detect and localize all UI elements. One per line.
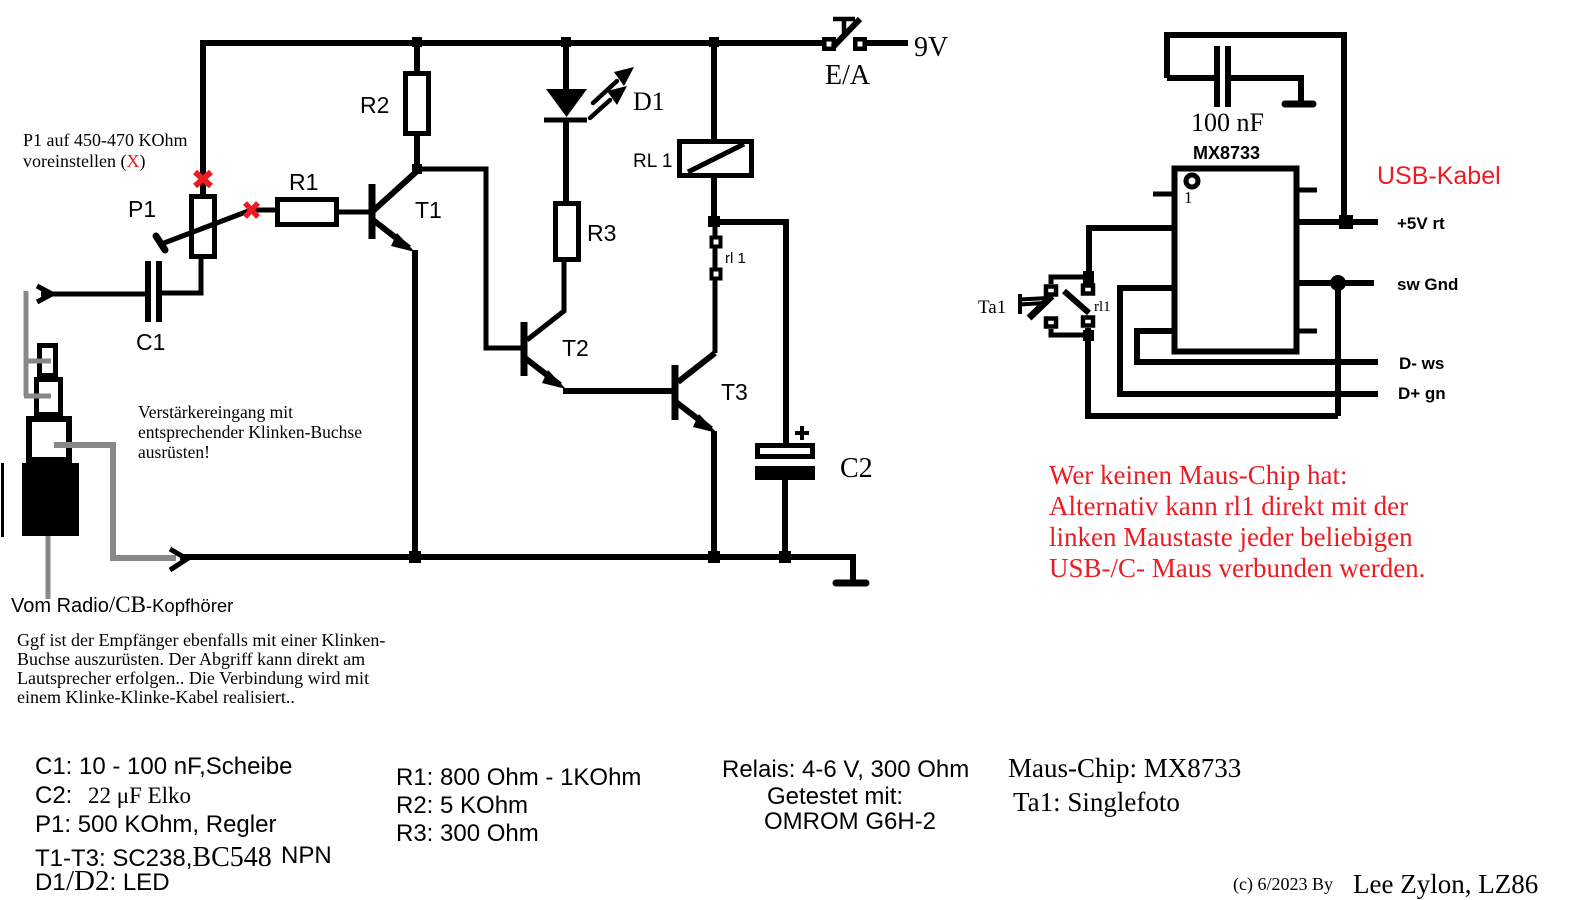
capacitor C2 top plate [758,446,813,457]
svg-text:rl1: rl1 [1094,299,1111,315]
wire Ta1 bottom link [1051,329,1089,335]
node junction T1 collector [412,164,422,174]
wire R3 to T2 collector [527,259,564,340]
svg-text:R3: 300 Ohm: R3: 300 Ohm [396,820,539,847]
jack plug sleeve [29,419,69,460]
svg-text:(c) 6/2023 By: (c) 6/2023 By [1233,874,1333,895]
svg-text:T1: T1 [415,197,442,223]
node junction +5V [1339,215,1353,229]
node junction T3 emitter rail [708,551,720,563]
wire junction to C2 branch [714,222,786,445]
svg-text:C1: C1 [136,329,165,355]
wire rail to ground symbol [850,557,856,581]
svg-text:P1: P1 [128,196,156,222]
thin left margin line [1,463,4,537]
svg-text:Getestet mit:: Getestet mit: [767,783,903,810]
svg-text:9V: 9V [914,32,948,63]
svg-text:D+ gn: D+ gn [1398,384,1446,403]
wire wiper to R1 [251,208,277,213]
node junction R2 top rail [412,37,422,47]
wire 100nF right to ground [1231,78,1301,101]
wire C1 to P1 bottom [162,256,201,293]
node junction RL1 top rail [709,37,719,47]
wire switch to 9V [867,40,908,46]
chip top-right stub pin [1297,188,1317,193]
svg-text:USB-Kabel: USB-Kabel [1377,162,1501,190]
svg-text:voreinstellen (X): voreinstellen (X) [23,151,145,172]
chip U1 MX8733 body [1175,169,1297,352]
wire rl1 segments [713,227,718,353]
chip bottom-right stub pin [1297,329,1317,334]
node junction C2 rail [779,551,791,563]
svg-text:R1: 800 Ohm - 1KOhm: R1: 800 Ohm - 1KOhm [396,764,641,791]
svg-text:Lee Zylon, LZ86: Lee Zylon, LZ86 [1353,869,1538,899]
switch E/A lever [833,19,860,47]
wire D+ from chip [1120,288,1378,394]
resistor R2 [406,74,429,134]
svg-text:P1 auf 450-470 KOhm: P1 auf 450-470 KOhm [23,130,188,150]
svg-text:Ggf ist der Empfänger ebenfall: Ggf ist der Empfänger ebenfalls mit eine… [17,630,385,650]
svg-text:R3: R3 [587,220,616,246]
resistor R1 [278,200,337,225]
svg-text:100 nF: 100 nF [1191,108,1264,137]
ground symbol 100nF [1285,101,1313,108]
svg-text:R2: R2 [360,92,389,118]
node junction Ta1 bottom right [1083,330,1094,341]
svg-text:ausrüsten!: ausrüsten! [138,442,210,462]
transistor T2 [524,322,566,389]
svg-text:linken Maustaste jeder beliebi: linken Maustaste jeder beliebigen [1049,522,1413,552]
svg-text:USB-/C- Maus verbunden werden.: USB-/C- Maus verbunden werden. [1049,553,1425,583]
wire 100nF top loop [1164,35,1347,78]
wire bottom ground rail [180,554,856,560]
wire D- from chip [1137,331,1378,362]
svg-text:OMROM G6H-2: OMROM G6H-2 [764,808,936,835]
potentiometer P1 wiper end bar [156,236,165,250]
svg-text:Wer keinen Maus-Chip hat:: Wer keinen Maus-Chip hat: [1049,460,1348,490]
svg-text:1: 1 [1184,188,1193,207]
svg-text:Alternativ kann rl1 direkt mit: Alternativ kann rl1 direkt mit der [1049,491,1408,521]
relay contact rl1 upper [712,238,721,247]
svg-text:R1: R1 [289,169,318,195]
svg-text:Lautsprecher erfolgen.. Die Ve: Lautsprecher erfolgen.. Die Verbindung w… [17,668,369,688]
LED D1 cathode bar [544,118,587,123]
svg-text:Buchse auszurüsten. Der Abgrif: Buchse auszurüsten. Der Abgriff kann dir… [17,649,365,669]
relay RL1 diagonal [688,144,744,172]
svg-text:Ta1: Ta1 [978,297,1006,318]
wire sw Gnd vertical [1335,283,1341,416]
svg-text:D- ws: D- ws [1399,354,1444,373]
jack plug ring [37,380,61,415]
wire sw Gnd pin [1297,280,1374,286]
wire RL1 to junction [711,176,717,227]
input arrow upper [37,286,52,302]
label red note Maus-Chip [1049,460,1425,583]
wire R2 top [414,43,420,74]
wire +5V pin [1297,219,1378,225]
switch Ta1 contact BL [1046,319,1056,327]
wire chip to Ta1 [1089,228,1174,284]
capacitor C2 bottom plate [755,466,815,480]
wire R2 bottom [414,133,420,169]
potentiometer P1 wiper arm [164,210,251,243]
svg-text:+5V rt: +5V rt [1397,214,1445,233]
chip top-left stub pin [1153,192,1174,197]
wire input to C1 [41,292,147,297]
wire rail to D1 anode [563,43,569,90]
transistor T1 [372,172,416,558]
potentiometer P1 [192,197,215,257]
node red X mark upper [195,172,211,186]
svg-text:C1: 10 - 100 nF,Scheibe: C1: 10 - 100 nF,Scheibe [35,753,293,780]
wire rl1 to T3 collector [678,353,715,382]
svg-text:D1: D1 [633,87,665,116]
wire +5V vertical main [1341,35,1347,222]
svg-text:C2:22 μF Elko: C2:22 μF Elko [35,782,191,809]
gray wire stubs into jack [24,361,51,396]
wire Ta1 top link [1051,277,1089,284]
svg-text:D1/D2: LED: D1/D2: LED [35,865,170,897]
switch Ta1 contact TR [1083,286,1093,294]
wire C2 to ground rail [782,480,788,558]
wire T2 emitter to T3 base [563,388,674,394]
capacitor C1 right plate [156,261,162,322]
wire T1 collector to T2 base [417,169,522,348]
capacitor C1 left plate [145,261,151,322]
wire Ta1 to ground rail [1088,328,1338,416]
node junction below RL1 [708,216,720,227]
node red X mark on wiper [245,203,258,217]
switch Ta1 actuator [1020,294,1048,314]
jack plug tip [40,346,56,376]
wire rail to RL1 [711,43,717,141]
svg-text:P1: 500 KOhm, Regler: P1: 500 KOhm, Regler [35,811,276,838]
node junction T1 emitter rail [409,551,421,563]
relay coil RL1 [680,142,752,176]
switch Ta1 contact BR [1083,318,1093,326]
svg-text:R2: 5 KOhm: R2: 5 KOhm [396,792,528,819]
svg-text:entsprechender Klinken-Buchse: entsprechender Klinken-Buchse [138,422,362,442]
wire top supply rail [200,40,827,46]
svg-text:T3: T3 [721,379,748,405]
gray wire from input arrow to jack [24,291,29,396]
svg-text:Verstärkereingang mit: Verstärkereingang mit [138,402,293,422]
switch Ta1 press lever [1029,296,1052,318]
LED D1 light arrow upper [593,67,634,103]
transistor T3 [675,365,717,558]
LED D1 triangle [546,89,587,117]
switch E/A right contact [853,37,867,51]
svg-text:Relais: 4-6 V, 300 Ohm: Relais: 4-6 V, 300 Ohm [722,756,969,783]
resistor R3 [556,204,579,260]
svg-text:rl 1: rl 1 [725,250,746,267]
wire D1 cathode to R3 [563,122,569,203]
capacitor 100nF right plate [1225,46,1231,107]
switch E/A button bar [833,19,855,33]
svg-text:C2: C2 [840,453,873,484]
ground symbol main [836,580,866,587]
wire left drop to P1 [200,40,206,196]
node junction sw Gnd [1330,275,1346,291]
switch Ta1 contact TL [1046,287,1056,295]
switch Ta1 lever [1064,291,1089,313]
svg-text:T2: T2 [562,335,589,361]
svg-text:Ta1: Singlefoto: Ta1: Singlefoto [1013,787,1180,817]
svg-text:sw Gnd: sw Gnd [1397,275,1458,294]
svg-text:Vom Radio/CB-Kopfhörer: Vom Radio/CB-Kopfhörer [11,592,233,617]
output arrow lower [170,549,187,570]
switch E/A left contact [822,37,836,51]
capacitor C2 plus sign [795,426,809,440]
jack plug body [22,463,79,536]
svg-text:einem Klinke-Klinke-Kabel real: einem Klinke-Klinke-Kabel realisiert.. [17,687,295,707]
gray wire jack body down [46,536,51,599]
LED D1 light arrow lower [590,86,627,118]
gray wire jack sleeve to output arrow [54,445,176,558]
capacitor 100nF left plate [1214,46,1220,107]
relay contact rl1 lower [712,270,721,279]
chip pin 1 ring [1186,175,1198,187]
svg-text:E/A: E/A [825,60,871,91]
svg-text:MX8733: MX8733 [1193,143,1260,163]
svg-text:RL 1: RL 1 [633,151,672,172]
node junction Ta1 top right [1083,271,1094,284]
node junction D1 top rail [561,37,571,47]
svg-text:Maus-Chip: MX8733: Maus-Chip: MX8733 [1008,753,1241,783]
wire R1 to T1 base [337,210,372,215]
